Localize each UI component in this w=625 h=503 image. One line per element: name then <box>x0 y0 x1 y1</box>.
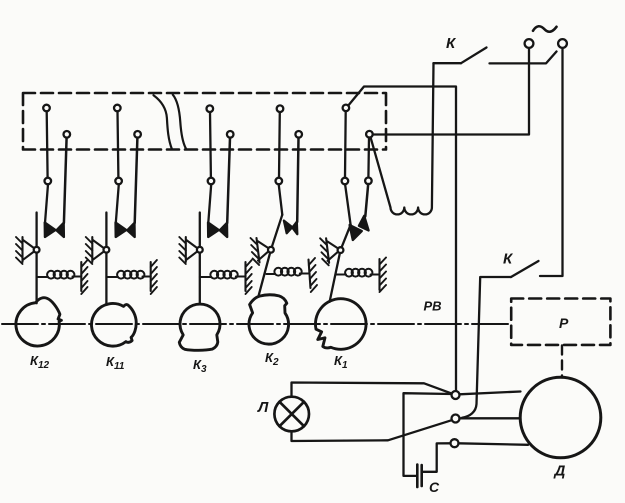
break mark <box>154 95 173 149</box>
wire node3 to motor <box>459 443 529 445</box>
svg-text:К2: К2 <box>265 350 279 368</box>
wire <box>367 138 370 178</box>
contact terminal <box>207 105 214 112</box>
program block dashed box <box>23 93 386 150</box>
wire <box>227 138 230 223</box>
switch unit K2 <box>249 105 317 344</box>
spring <box>37 276 48 278</box>
switch K blade <box>461 48 487 64</box>
spring anchor wall <box>244 262 246 291</box>
contact terminal <box>295 131 302 138</box>
svg-text:С: С <box>429 479 440 495</box>
wire lamp top to node1 <box>292 383 452 397</box>
cam K11 <box>91 304 136 347</box>
contact terminal <box>276 178 283 185</box>
wire <box>45 184 48 223</box>
switch unit K3 <box>179 105 251 350</box>
cam K1 <box>315 299 366 350</box>
wire node2 to motor <box>460 417 521 419</box>
wire node1 to motor <box>460 392 521 395</box>
pivot support <box>186 237 197 262</box>
svg-text:К3: К3 <box>193 357 207 375</box>
contact terminal <box>365 178 372 185</box>
spring anchor wall <box>80 262 82 291</box>
wire <box>46 111 49 177</box>
wire <box>209 112 212 178</box>
mains terminal <box>558 39 567 48</box>
spring <box>106 276 118 278</box>
contact blade <box>350 225 362 240</box>
capacitor C left lead <box>404 393 452 476</box>
switch K2pole blade <box>511 261 539 277</box>
wire node1 to K1 left contact <box>348 87 456 392</box>
spring <box>266 273 275 275</box>
wire <box>365 184 368 216</box>
contact blade <box>292 222 297 234</box>
svg-text:Д: Д <box>553 463 566 480</box>
spring anchor wall <box>150 262 152 291</box>
svg-text:Л: Л <box>257 399 269 416</box>
node 1 <box>452 391 460 399</box>
lever <box>258 215 282 297</box>
lever <box>35 213 37 304</box>
pivot <box>104 247 110 253</box>
wire <box>278 112 281 178</box>
capacitor C right lead <box>423 443 451 472</box>
pivot <box>268 247 274 253</box>
contact blade <box>220 223 228 237</box>
switch unit K11 <box>86 105 157 346</box>
pivot <box>34 247 40 253</box>
contact blade <box>56 223 64 237</box>
node 3 <box>451 439 459 447</box>
wire <box>345 184 351 225</box>
wire <box>344 111 347 178</box>
cam K2 <box>249 295 289 344</box>
pivot support <box>257 238 269 263</box>
contact terminal <box>366 131 373 138</box>
wire <box>116 111 119 177</box>
wire <box>64 138 67 223</box>
contact blade <box>116 223 127 238</box>
switch K top lead <box>434 62 462 64</box>
camshaft axis <box>2 323 511 325</box>
switch K fixed lead <box>490 52 557 64</box>
contact terminal <box>43 105 50 112</box>
contact terminal <box>208 178 215 185</box>
lever <box>199 213 201 305</box>
wire <box>116 184 119 223</box>
motor D <box>520 377 601 458</box>
lever <box>105 213 107 305</box>
ac tilde <box>533 26 557 32</box>
pivot support <box>92 237 103 262</box>
svg-text:Р: Р <box>559 315 569 331</box>
contact terminal <box>134 131 141 138</box>
contact blade <box>359 216 369 231</box>
contact terminal <box>45 178 52 185</box>
contact terminal <box>115 178 122 185</box>
spring <box>337 274 347 276</box>
wire lamp bottom to node2 <box>292 420 452 441</box>
wire <box>208 184 211 223</box>
pivot support <box>326 238 338 262</box>
contact blade <box>127 223 135 237</box>
switch unit K12 <box>16 105 88 346</box>
spring anchor wall <box>378 259 380 290</box>
relay P dashed box <box>511 299 610 345</box>
wire <box>279 184 283 214</box>
wire <box>135 138 138 223</box>
switch unit K1 <box>315 105 386 350</box>
contact terminal <box>277 105 284 112</box>
wire right mains terminal down <box>540 48 563 276</box>
contact terminal <box>114 105 121 112</box>
spring <box>200 276 212 278</box>
lever <box>330 225 351 302</box>
cam K3 <box>179 304 220 350</box>
svg-text:К: К <box>503 251 514 268</box>
contact terminal <box>227 131 234 138</box>
contact blade <box>45 223 56 238</box>
contact blade <box>208 223 219 238</box>
contact terminal <box>342 178 349 185</box>
pivot support <box>23 237 34 262</box>
lamp L <box>274 397 309 432</box>
pivot <box>197 247 203 253</box>
switch K2pole lead to node2 <box>462 277 511 418</box>
wire K1 right contact to mains terminal <box>373 48 529 135</box>
flexible cord loops <box>371 63 434 214</box>
contact terminal <box>64 131 71 138</box>
mechanical link P to motor <box>561 346 563 378</box>
node 2 <box>452 415 460 423</box>
pivot <box>338 247 344 253</box>
cam K12 <box>16 298 61 346</box>
capacitor C plates <box>417 465 421 488</box>
svg-text:К1: К1 <box>334 353 348 371</box>
svg-text:К: К <box>446 35 457 52</box>
spring anchor wall <box>309 260 311 289</box>
contact terminal <box>343 105 350 112</box>
svg-text:РВ: РВ <box>424 299 442 314</box>
wire <box>297 138 298 222</box>
svg-text:К12: К12 <box>30 353 50 371</box>
mains terminal <box>525 39 534 48</box>
svg-text:К11: К11 <box>106 354 125 372</box>
contact blade <box>284 221 292 234</box>
